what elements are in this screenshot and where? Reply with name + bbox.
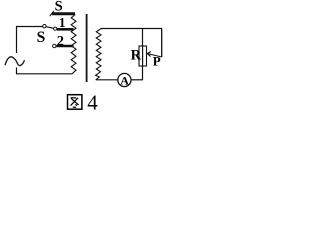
wire bottom-left horizontal bbox=[16, 73, 72, 75]
contact 1 terminal bbox=[54, 27, 57, 30]
wire left vertical bbox=[16, 26, 18, 53]
svg-text:A: A bbox=[120, 74, 129, 88]
svg-text:4: 4 bbox=[87, 91, 98, 112]
wire right vertical bbox=[161, 29, 163, 58]
svg-text:1: 1 bbox=[59, 15, 66, 30]
wire secondary bottom horizontal bbox=[96, 79, 119, 81]
wire top-left horizontal bbox=[16, 26, 43, 28]
rheostat R label bbox=[131, 47, 142, 63]
svg-text:P: P bbox=[153, 54, 161, 69]
transformer core bbox=[86, 14, 88, 82]
transformer secondary coil bbox=[96, 29, 101, 80]
transformer primary coil bbox=[71, 15, 76, 74]
wire secondary top horizontal bbox=[101, 28, 163, 30]
blade S bar bbox=[50, 11, 75, 16]
slider P label bbox=[153, 54, 161, 69]
wire rheostat bottom bbox=[142, 66, 144, 80]
contact 2 bar bbox=[56, 45, 73, 48]
switch S pivot bbox=[43, 25, 46, 28]
svg-text:S: S bbox=[37, 29, 46, 46]
wire branch to rheostat bbox=[142, 29, 144, 47]
contact 2 terminal bbox=[53, 44, 56, 47]
svg-text:R: R bbox=[131, 47, 142, 63]
rheostat R body bbox=[139, 46, 147, 66]
wire switch to contact 1 bbox=[46, 27, 54, 29]
caption number 4 bbox=[87, 91, 98, 115]
AC source bbox=[5, 57, 25, 66]
wire lower-left vertical bbox=[16, 68, 18, 74]
blade S label bbox=[55, 0, 63, 15]
wire bottom-right horizontal bbox=[131, 79, 143, 81]
slider P arrow bbox=[147, 52, 162, 58]
contact 1 label bbox=[59, 15, 66, 30]
switch S label bbox=[37, 29, 46, 46]
ammeter A bbox=[118, 73, 131, 87]
contact 2 label bbox=[57, 34, 64, 50]
caption figure glyph bbox=[68, 95, 82, 110]
contact 1 bar bbox=[57, 28, 74, 31]
